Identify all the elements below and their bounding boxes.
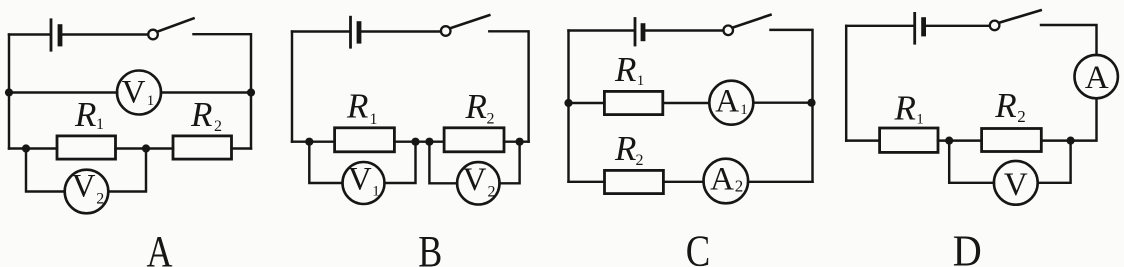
- voltmeter V1 (circuit A): [117, 71, 161, 115]
- svg-text:2: 2: [636, 152, 644, 169]
- battery short plate (circuit C): [641, 26, 646, 39]
- wire B V2 loop right: [500, 142, 520, 184]
- junction dot C left: [564, 99, 572, 107]
- wire A between R1 and R2: [116, 147, 174, 149]
- wire D top-left: [846, 25, 913, 27]
- wire A battery to switch: [63, 33, 149, 35]
- wire D ammeter down to corner: [1071, 98, 1097, 140]
- switch pivot circle (circuit C): [723, 26, 733, 36]
- svg-text:1: 1: [147, 93, 155, 109]
- battery long plate (circuit B): [349, 17, 352, 47]
- wire B main branch left: [292, 140, 335, 142]
- junction dot B right of R2: [516, 138, 524, 146]
- wire D between R1 and R2: [938, 139, 982, 141]
- svg-text:V: V: [1004, 167, 1028, 203]
- wire C R2 to ammeter A2: [663, 181, 703, 183]
- wire D main branch left: [846, 139, 879, 141]
- voltmeter V1 (circuit B): [343, 162, 385, 204]
- svg-text:2: 2: [214, 118, 222, 135]
- svg-text:R: R: [614, 50, 636, 89]
- svg-text:2: 2: [487, 111, 495, 128]
- svg-text:2: 2: [96, 191, 104, 208]
- junction dot A between R1 R2: [142, 144, 150, 152]
- wire A top-left: [9, 33, 50, 35]
- resistor R2 box (circuit C): [605, 170, 664, 193]
- svg-text:V: V: [463, 162, 487, 198]
- wire A bottom branch left: [9, 147, 57, 149]
- wire B left vertical: [291, 32, 293, 142]
- ammeter A1 (circuit C): [709, 81, 753, 125]
- battery long plate (circuit D): [913, 13, 916, 43]
- junction dot A right-V1: [247, 88, 255, 96]
- wire B R2 to right vertical: [504, 140, 529, 142]
- resistor R1 box (circuit B): [335, 128, 395, 152]
- svg-text:B: B: [418, 227, 442, 267]
- wire C A1 to right vertical: [753, 101, 812, 103]
- svg-text:1: 1: [372, 184, 380, 200]
- wire B V2 loop left: [429, 142, 457, 184]
- wire D V loop left: [949, 141, 994, 183]
- wire B top-left: [292, 30, 349, 32]
- svg-text:1: 1: [740, 102, 748, 118]
- resistor R2 box (circuit A): [173, 136, 232, 159]
- svg-text:R: R: [190, 95, 212, 134]
- battery short plate (circuit A): [58, 27, 63, 44]
- switch lever (circuit A): [158, 18, 194, 31]
- svg-text:1: 1: [96, 116, 104, 133]
- junction dot C right: [807, 99, 815, 107]
- svg-text:V: V: [122, 75, 146, 111]
- wire C top-left: [569, 29, 634, 31]
- switch pivot circle (circuit B): [441, 26, 451, 36]
- wire C switch to top-right corner: [771, 30, 813, 182]
- resistor R2 box (circuit B): [444, 128, 504, 152]
- wire A V2 loop right: [108, 149, 146, 192]
- wire C R1 to ammeter A1: [663, 102, 710, 104]
- svg-text:R: R: [465, 87, 487, 126]
- svg-text:C: C: [686, 227, 711, 267]
- wire C left vertical: [567, 31, 569, 182]
- svg-text:A: A: [1085, 60, 1109, 96]
- switch pivot circle (circuit A): [148, 30, 158, 40]
- switch lever (circuit B): [450, 15, 489, 28]
- svg-text:R: R: [346, 87, 368, 126]
- resistor R1 box (circuit D): [880, 128, 938, 152]
- wire D left vertical: [845, 26, 847, 141]
- svg-text:R: R: [614, 129, 636, 168]
- svg-text:1: 1: [916, 112, 924, 128]
- wire A left vertical: [8, 35, 10, 149]
- svg-text:2: 2: [1017, 107, 1026, 126]
- svg-text:A: A: [710, 161, 734, 197]
- battery long plate (circuit A): [50, 20, 53, 50]
- ammeter A (circuit D): [1075, 55, 1118, 98]
- svg-text:D: D: [953, 227, 982, 267]
- svg-text:A: A: [147, 227, 173, 267]
- junction dot D between R1 R2: [945, 137, 953, 145]
- ammeter A2 (circuit C): [704, 159, 749, 204]
- wire A voltmeter branch left: [9, 91, 117, 93]
- wire B switch to top-right corner: [489, 31, 528, 141]
- wire B V1 loop right: [385, 142, 416, 183]
- svg-text:V: V: [348, 162, 372, 198]
- junction dot B left of R1: [305, 138, 313, 146]
- voltmeter V2 (circuit A): [65, 170, 109, 214]
- wire C middle branch left: [569, 102, 605, 104]
- svg-text:1: 1: [370, 111, 378, 128]
- resistor R1 box (circuit A): [57, 136, 116, 159]
- wire A R2 to right vertical: [232, 147, 252, 149]
- wire C bottom branch left: [569, 181, 605, 183]
- wire D R2 to right: [1041, 139, 1070, 141]
- wire D V loop right: [1038, 141, 1071, 183]
- svg-text:V: V: [72, 169, 96, 205]
- wire A V2 loop left: [26, 149, 65, 192]
- wire B between R1 and R2: [394, 140, 444, 142]
- junction dot D right of R2: [1067, 137, 1075, 145]
- svg-text:A: A: [715, 83, 739, 119]
- svg-text:2: 2: [488, 184, 496, 201]
- junction dot B right of R1: [411, 138, 419, 146]
- svg-text:2: 2: [735, 176, 744, 195]
- junction dot B left of R2: [425, 138, 433, 146]
- wire C A2 to right vertical: [748, 181, 812, 183]
- svg-text:R: R: [994, 86, 1016, 125]
- svg-text:R: R: [74, 95, 96, 134]
- wire B V1 loop left: [309, 142, 342, 183]
- voltmeter V2 (circuit B): [457, 162, 499, 204]
- switch lever (circuit D): [999, 10, 1041, 22]
- wire D switch to ammeter: [1041, 25, 1097, 55]
- wire A voltmeter branch right: [161, 91, 251, 93]
- wire A switch to top-right corner: [194, 34, 252, 148]
- wire B battery to switch: [362, 30, 441, 32]
- junction dot A V2-left: [22, 144, 30, 152]
- wire C battery to switch: [646, 29, 724, 31]
- voltmeter V (circuit D): [994, 161, 1038, 205]
- svg-text:R: R: [894, 89, 916, 128]
- battery long plate (circuit C): [634, 19, 637, 46]
- battery short plate (circuit D): [921, 20, 926, 34]
- battery short plate (circuit B): [357, 24, 362, 42]
- resistor R1 box (circuit C): [604, 91, 662, 114]
- resistor R2 box (circuit D): [982, 129, 1042, 152]
- svg-text:1: 1: [637, 73, 645, 89]
- junction dot A left-V1: [5, 88, 13, 96]
- switch lever (circuit C): [733, 15, 771, 28]
- wire D battery to switch: [926, 25, 990, 27]
- switch pivot circle (circuit D): [990, 21, 1000, 31]
